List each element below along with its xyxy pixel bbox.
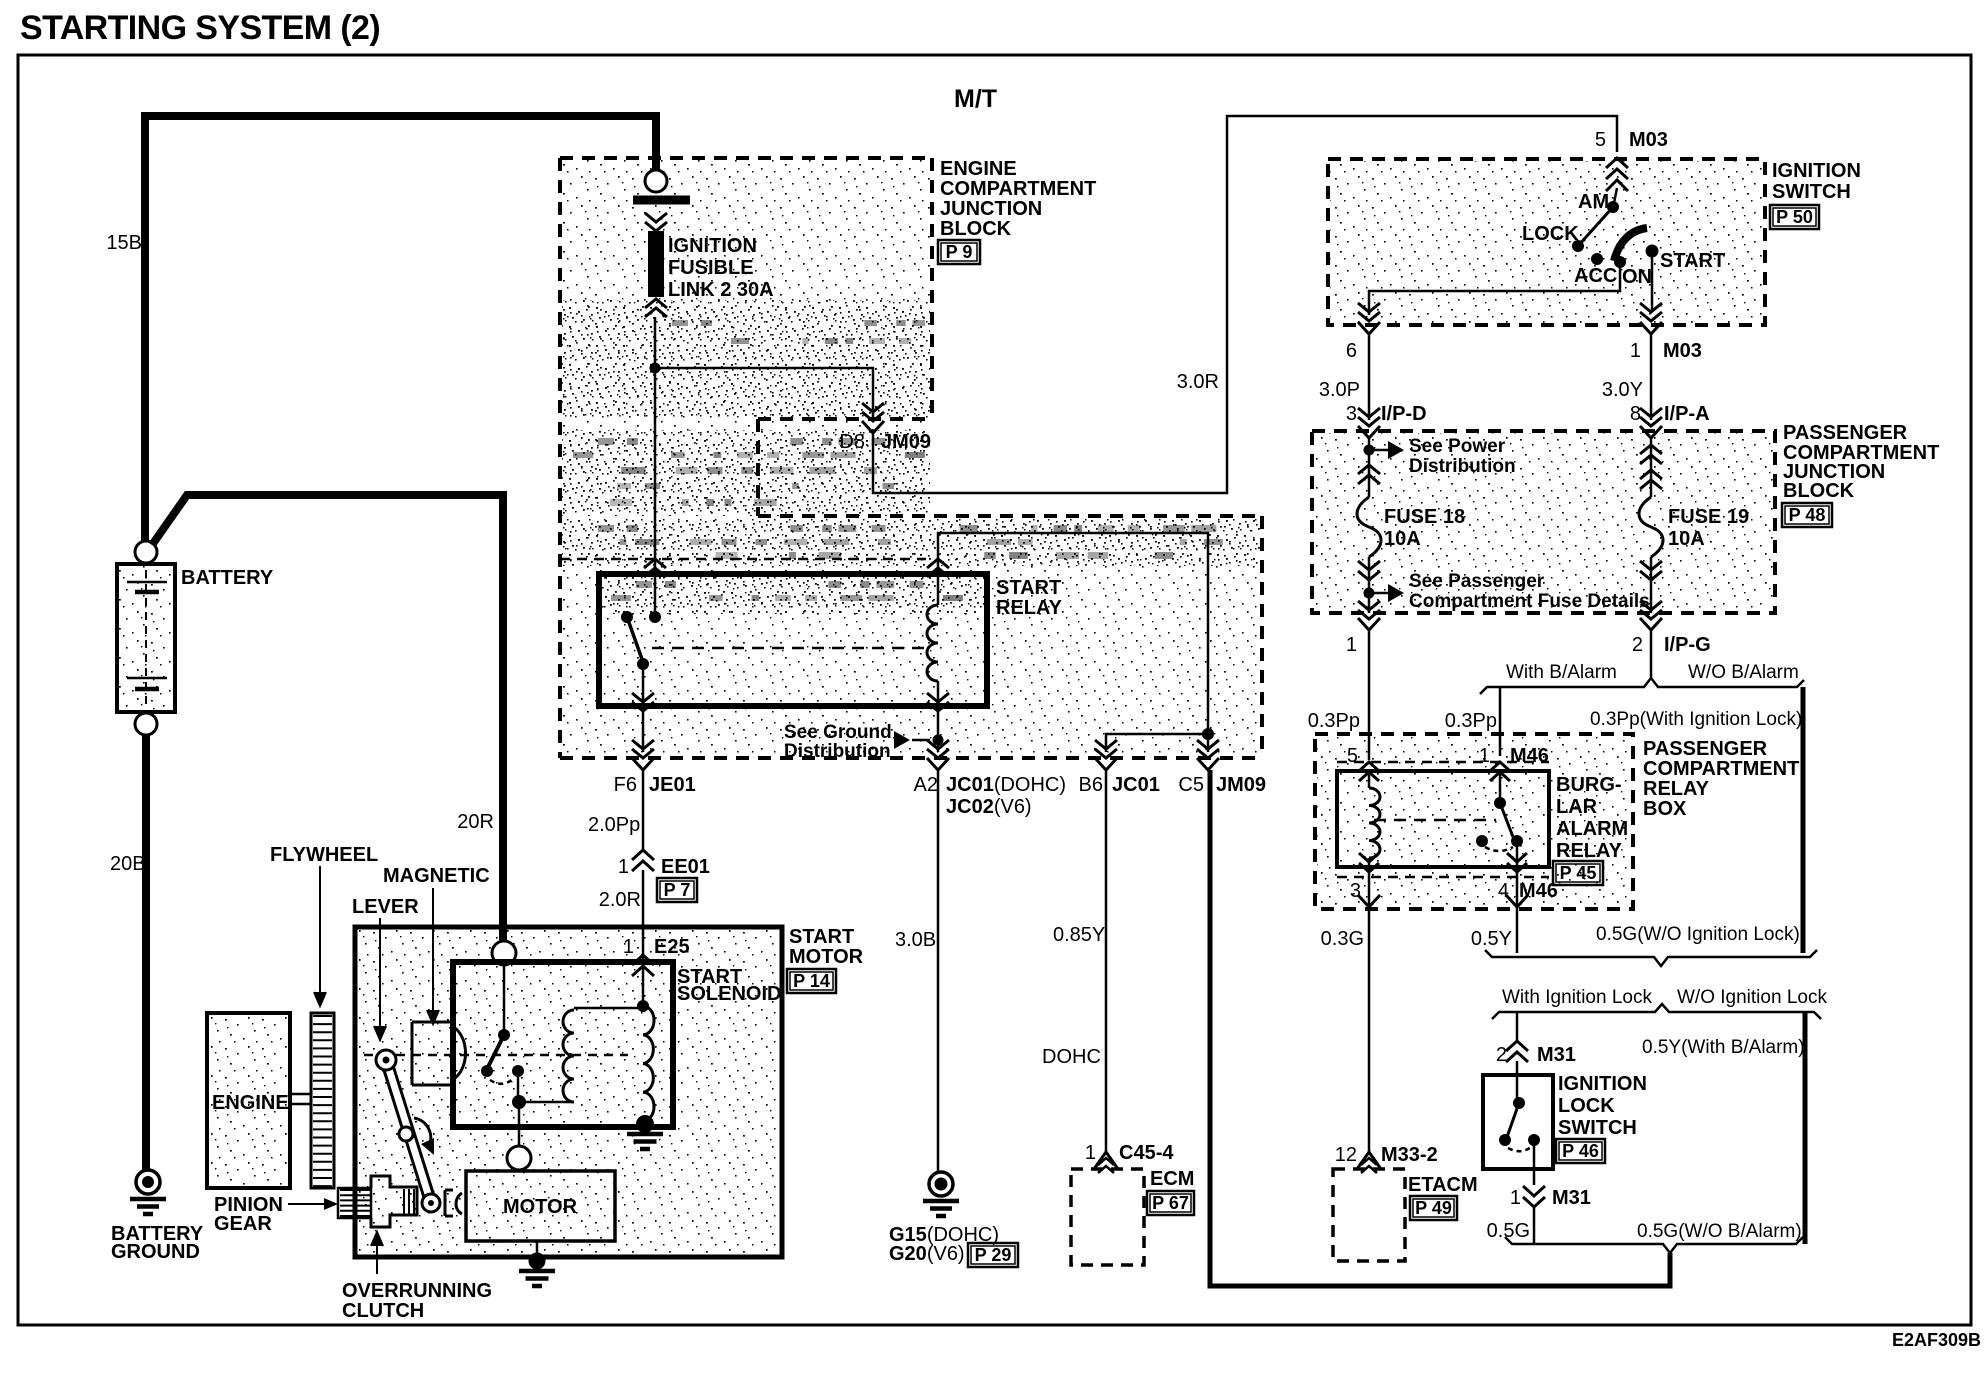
label G15(DOHC) G20(V6) <box>889 1224 999 1265</box>
connector 2 I/P-G <box>1640 601 1662 630</box>
wire fuse 19 to I/P-G <box>1650 557 1653 613</box>
connector arrows relay pins bottom <box>1359 853 1527 872</box>
connector pins 3 and 4 forks <box>1358 895 1528 907</box>
wire pin1 0.3Pp to relay box <box>1368 631 1371 760</box>
label 0.5Y (With B/Alarm) <box>1642 1037 1805 1058</box>
node power distribution tap <box>1364 445 1375 456</box>
label 0.85Y <box>1053 924 1105 946</box>
connector B6 JC01 <box>1095 740 1117 770</box>
svg-text:Compartment Fuse Details: Compartment Fuse Details <box>1409 591 1650 612</box>
label PASSENGER COMPARTMENT RELAY BOX <box>1643 738 1799 820</box>
svg-text:IGNITION: IGNITION <box>668 235 757 257</box>
svg-text:START: START <box>1660 250 1725 272</box>
burglar alarm relay inner dashed edges <box>1337 762 1549 877</box>
label 0.5G (W/O B/Alarm) <box>1637 1221 1802 1242</box>
fuse FUSE 19 10A <box>1639 497 1663 557</box>
wire ON contact to pin 6 <box>1369 262 1620 315</box>
wire 15B battery positive to fusible link <box>145 116 656 541</box>
label F6 JE01 <box>614 774 696 796</box>
svg-text:P 48: P 48 <box>1789 505 1826 525</box>
svg-text:Distribution: Distribution <box>1409 456 1516 477</box>
relay coil START RELAY <box>927 574 938 706</box>
label 4 M46 <box>1498 880 1558 902</box>
svg-text:2: 2 <box>1496 1044 1507 1066</box>
label LOCK <box>1522 223 1579 245</box>
label 0.5G (W/O Ignition Lock) <box>1596 924 1800 945</box>
label START SOLENOID <box>677 966 781 1005</box>
svg-text:LINK 2 30A: LINK 2 30A <box>668 279 774 301</box>
wire 2.0Pp JE01 to EE01 <box>642 770 645 850</box>
svg-text:IGNITION: IGNITION <box>1558 1073 1647 1095</box>
label MAGNETIC with arrow <box>383 865 490 1024</box>
svg-text:P 67: P 67 <box>1152 1193 1189 1213</box>
svg-text:ENGINE: ENGINE <box>940 158 1017 180</box>
svg-text:P 46: P 46 <box>1562 1141 1599 1161</box>
label W/O B/Alarm <box>1688 662 1799 683</box>
overrunning clutch <box>371 1176 417 1227</box>
flywheel gear rack <box>311 1013 334 1188</box>
svg-text:G20(V6): G20(V6) <box>889 1243 965 1265</box>
svg-text:RELAY: RELAY <box>996 597 1063 619</box>
battery BATTERY <box>117 564 175 712</box>
svg-text:5: 5 <box>1595 129 1606 151</box>
svg-text:1: 1 <box>1346 634 1357 656</box>
label ENGINE <box>212 1092 289 1114</box>
wire with ignition lock to M31 <box>1516 1012 1519 1041</box>
label PASSENGER COMPARTMENT JUNCTION BLOCK <box>1783 422 1939 502</box>
label 1 M46 <box>1479 745 1549 767</box>
svg-text:1: 1 <box>623 936 634 958</box>
label 0.3Pp (With Ignition Lock) <box>1590 709 1802 730</box>
switch IGNITION LOCK SWITCH box <box>1483 1075 1553 1169</box>
svg-text:PASSENGER: PASSENGER <box>1783 422 1908 444</box>
label With Ignition Lock <box>1502 987 1652 1008</box>
wire START contact to pin 1 <box>1651 251 1654 312</box>
label START RELAY <box>996 577 1063 619</box>
clutch fork bracket <box>445 1190 462 1216</box>
label B6 JC01 <box>1079 774 1160 796</box>
wire 3.0R JM09 to ignition switch <box>873 116 1617 493</box>
label 20B <box>110 853 146 875</box>
engine box ENGINE <box>207 1013 290 1188</box>
label 0.3G <box>1321 928 1364 950</box>
svg-text:20B: 20B <box>110 853 146 875</box>
svg-text:MAGNETIC: MAGNETIC <box>383 865 490 887</box>
svg-text:2: 2 <box>1632 634 1643 656</box>
ECM dashed box <box>1071 1169 1144 1265</box>
label OVERRUNNING CLUTCH with arrow <box>342 1232 492 1322</box>
page ref P 46 <box>1556 1139 1605 1163</box>
wire relay switch output to F6 <box>642 664 645 752</box>
page ref P 14 <box>787 969 836 993</box>
svg-text:W/O Ignition Lock: W/O Ignition Lock <box>1677 987 1827 1008</box>
svg-text:0.3Pp(With Ignition Lock): 0.3Pp(With Ignition Lock) <box>1590 709 1802 730</box>
svg-text:M31: M31 <box>1552 1187 1591 1209</box>
wire fuse 18 to pin 1 <box>1368 557 1371 613</box>
svg-text:M46: M46 <box>1510 745 1549 767</box>
svg-text:3.0B: 3.0B <box>895 929 936 951</box>
wire motor to ground <box>536 1241 539 1258</box>
connector 5 M03 <box>1606 158 1628 191</box>
svg-text:LEVER: LEVER <box>352 896 419 918</box>
connector pin 1 M03 <box>1640 303 1662 334</box>
label DOHC <box>1042 1046 1101 1068</box>
label 5 M03 <box>1595 129 1668 151</box>
node battery positive terminal <box>135 541 157 563</box>
svg-text:RELAY: RELAY <box>1556 840 1623 862</box>
svg-text:FUSE 19: FUSE 19 <box>1668 506 1749 528</box>
option bracket merge bottom <box>1505 1237 1803 1253</box>
wire 0.3Pp to relay pin 1 <box>1499 687 1502 756</box>
svg-text:IGNITION: IGNITION <box>1772 160 1861 182</box>
svg-text:See Power: See Power <box>1409 436 1506 457</box>
label See Passenger Compartment Fuse Details with arrow <box>1369 571 1650 612</box>
ground G15 G20 engine ground <box>923 1172 959 1216</box>
label 12 M33-2 <box>1335 1144 1438 1166</box>
svg-text:P 14: P 14 <box>793 971 830 991</box>
svg-text:0.5G(W/O B/Alarm): 0.5G(W/O B/Alarm) <box>1637 1221 1802 1242</box>
svg-text:20R: 20R <box>457 811 494 833</box>
label ECM <box>1150 1168 1194 1190</box>
burglar relay coil <box>1369 771 1380 871</box>
node 20R terminal post <box>492 941 516 965</box>
wire 3.0P pin6 to I/P-D <box>1368 335 1371 420</box>
svg-text:DOHC: DOHC <box>1042 1046 1101 1068</box>
wire 3.0Y M03 to I/P-A <box>1650 335 1653 420</box>
svg-text:FUSE 18: FUSE 18 <box>1384 506 1465 528</box>
page ref P 29 <box>968 1243 1018 1267</box>
solenoid hold-in coil <box>637 1000 654 1121</box>
connector arrows relay outputs <box>632 693 949 711</box>
label M/T <box>954 85 997 113</box>
svg-text:10A: 10A <box>1668 528 1705 550</box>
svg-text:ALARM: ALARM <box>1556 818 1628 840</box>
label ENGINE COMPARTMENT JUNCTION BLOCK <box>940 158 1096 240</box>
svg-text:COMPARTMENT: COMPARTMENT <box>1643 758 1799 780</box>
solenoid switch <box>481 965 524 1102</box>
svg-text:GROUND: GROUND <box>111 1241 200 1263</box>
svg-text:P 49: P 49 <box>1415 1198 1452 1218</box>
svg-text:4: 4 <box>1498 880 1509 902</box>
label W/O Ignition Lock <box>1677 987 1827 1008</box>
label FLYWHEEL with arrow <box>270 844 378 1006</box>
svg-text:JM09: JM09 <box>1216 774 1266 796</box>
svg-text:GEAR: GEAR <box>214 1213 272 1235</box>
svg-text:F6: F6 <box>614 774 637 796</box>
svg-text:1: 1 <box>1510 1187 1521 1209</box>
label ETACM <box>1408 1174 1478 1196</box>
connector E25 into solenoid <box>632 955 654 976</box>
label PINION GEAR with arrow <box>214 1194 338 1235</box>
label 0.3Pp mid <box>1445 710 1497 732</box>
lever arm <box>376 1050 440 1212</box>
wire switch to 1 M31 <box>1533 1140 1536 1185</box>
wire 0.3G relay pin 3 to ETACM <box>1368 871 1371 1152</box>
svg-text:3.0P: 3.0P <box>1319 379 1360 401</box>
wire 0.5G to merge bracket <box>1533 1206 1536 1244</box>
relay box passenger compartment dashed box <box>1315 734 1633 909</box>
svg-text:P 9: P 9 <box>946 242 973 262</box>
svg-text:C45-4: C45-4 <box>1119 1142 1174 1164</box>
connector 3 I/P-D <box>1358 408 1380 438</box>
svg-text:M03: M03 <box>1629 129 1668 151</box>
node junction fusible link / 3.0R branch <box>650 363 661 374</box>
svg-text:M33-2: M33-2 <box>1381 1144 1438 1166</box>
svg-text:3: 3 <box>1346 403 1357 425</box>
svg-text:JUNCTION: JUNCTION <box>940 198 1042 220</box>
label See Power Distribution with arrow <box>1369 436 1516 477</box>
label MOTOR <box>503 1196 578 1218</box>
label 3.0Y <box>1602 379 1643 401</box>
label 15B <box>106 232 142 254</box>
svg-text:COMPARTMENT: COMPARTMENT <box>940 178 1096 200</box>
option bracket ignition lock bottom <box>1492 1004 1821 1019</box>
label 3 I/P-D <box>1346 403 1427 425</box>
svg-text:M31: M31 <box>1537 1044 1576 1066</box>
connector 1 M31 <box>1523 1186 1545 1207</box>
svg-text:LAR: LAR <box>1556 796 1598 818</box>
svg-text:BLOCK: BLOCK <box>940 218 1012 240</box>
label 3 <box>1350 880 1361 902</box>
connector D8 JM09 <box>862 403 884 433</box>
svg-text:P 50: P 50 <box>1776 207 1813 227</box>
page ref P 45 <box>1553 861 1603 885</box>
label 8 I/P-A <box>1630 403 1710 425</box>
svg-text:W/O B/Alarm: W/O B/Alarm <box>1688 662 1799 683</box>
wire branch to B6 JC01 <box>1106 734 1208 752</box>
svg-text:BURG-: BURG- <box>1556 774 1622 796</box>
wire 0.3Pp with ignition lock branch <box>1801 687 1806 953</box>
svg-text:ACC: ACC <box>1574 265 1617 287</box>
connector 2 M31 <box>1506 1041 1528 1062</box>
relay mechanical link dashed burglar <box>1374 819 1496 822</box>
connector arrows above fuse 18 <box>1358 465 1380 484</box>
page ref P 7 <box>657 878 697 902</box>
svg-text:BOX: BOX <box>1643 798 1687 820</box>
wire I/P-D to fuse 18 <box>1368 438 1371 497</box>
svg-text:EE01: EE01 <box>661 856 710 878</box>
label 2 M31 <box>1496 1044 1576 1066</box>
label 2.0Pp <box>588 814 640 836</box>
label 2.0R <box>599 889 641 911</box>
svg-text:JC01: JC01 <box>1112 774 1160 796</box>
svg-text:LOCK: LOCK <box>1558 1095 1615 1117</box>
svg-text:M03: M03 <box>1663 340 1702 362</box>
page ref P 48 <box>1782 503 1832 527</box>
label IGNITION SWITCH <box>1772 160 1861 203</box>
wire 2.0R EE01 to E25 <box>642 870 645 1003</box>
svg-text:P 7: P 7 <box>664 880 691 900</box>
svg-text:0.5Y(With B/Alarm): 0.5Y(With B/Alarm) <box>1642 1037 1805 1058</box>
svg-text:E2AF309B: E2AF309B <box>1892 1330 1981 1350</box>
label FUSE 19 10A <box>1668 506 1749 550</box>
svg-text:0.5G(W/O Ignition Lock): 0.5G(W/O Ignition Lock) <box>1596 924 1800 945</box>
svg-text:BATTERY: BATTERY <box>181 567 274 589</box>
option bracket B/Alarm <box>1480 678 1804 694</box>
label 1 M31 <box>1510 1187 1591 1209</box>
wire fusible link to start relay <box>654 317 657 617</box>
connector arrows into relay from junction block <box>644 559 949 577</box>
svg-text:0.3G: 0.3G <box>1321 928 1364 950</box>
label ACC <box>1574 265 1617 287</box>
label BATTERY GROUND <box>111 1223 204 1263</box>
connector EE01 <box>632 850 654 871</box>
connector 12 M33-2 <box>1357 1152 1381 1173</box>
svg-text:C5: C5 <box>1178 774 1204 796</box>
wire solenoid to motor <box>518 1102 521 1146</box>
svg-text:2.0R: 2.0R <box>599 889 641 911</box>
svg-text:ENGINE: ENGINE <box>212 1092 289 1114</box>
connector arrows below fuse 18 <box>1358 561 1380 580</box>
label C5 JM09 <box>1178 774 1266 796</box>
svg-text:8: 8 <box>1630 403 1641 425</box>
svg-text:START: START <box>996 577 1061 599</box>
label 6 <box>1346 340 1357 362</box>
svg-text:3.0R: 3.0R <box>1177 371 1219 393</box>
svg-text:JM09: JM09 <box>881 431 931 453</box>
svg-text:FUSIBLE: FUSIBLE <box>668 257 754 279</box>
label A2 JC01(DOHC) JC02(V6) <box>914 774 1067 818</box>
label 1 <box>1346 634 1357 656</box>
rotation arrow <box>414 1118 434 1155</box>
solenoid pull-in coil <box>519 1008 643 1102</box>
svg-text:ETACM: ETACM <box>1408 1174 1478 1196</box>
svg-text:RELAY: RELAY <box>1643 778 1710 800</box>
svg-text:ON: ON <box>1622 266 1652 288</box>
label D8 JM09 <box>839 431 931 453</box>
svg-text:BLOCK: BLOCK <box>1783 480 1855 502</box>
wire I/P-A to fuse 19 <box>1650 438 1653 497</box>
svg-text:FLYWHEEL: FLYWHEEL <box>270 844 378 866</box>
label With B/Alarm <box>1506 662 1617 683</box>
ground motor ground <box>519 1253 555 1287</box>
label BATTERY <box>181 567 274 589</box>
wire 3.0B JC01 to ground <box>937 770 940 1172</box>
label LEVER with arrow <box>352 896 419 1040</box>
svg-text:0.5Y: 0.5Y <box>1471 928 1512 950</box>
ground solenoid coil ground <box>627 1115 663 1149</box>
svg-text:1: 1 <box>1630 340 1641 362</box>
label START <box>1660 250 1725 272</box>
node solenoid switch junction <box>512 1095 526 1109</box>
svg-text:3: 3 <box>1350 880 1361 902</box>
label 3.0R <box>1177 371 1219 393</box>
label 0.3Pp left <box>1308 710 1360 732</box>
connector arrows above fuse 19 <box>1640 445 1662 489</box>
svg-text:0.85Y: 0.85Y <box>1053 924 1105 946</box>
svg-text:6: 6 <box>1346 340 1357 362</box>
svg-text:P 45: P 45 <box>1560 863 1597 883</box>
fuse FUSE 18 10A <box>1357 497 1381 557</box>
wire relay coil top to C5 JM09 <box>938 533 1208 752</box>
svg-text:I/P-G: I/P-G <box>1664 634 1711 656</box>
connector pin 1 lower <box>1358 601 1380 630</box>
svg-text:AM: AM <box>1578 191 1609 213</box>
ignition switch dashed box <box>1328 159 1765 325</box>
connector arrows below fuse 19 <box>1640 561 1662 580</box>
option bracket ignition lock top <box>1485 950 1817 966</box>
label 20R <box>457 811 494 833</box>
node ground distribution tap <box>933 735 944 746</box>
label 1 C45-4 <box>1085 1142 1174 1164</box>
svg-text:MOTOR: MOTOR <box>789 946 864 968</box>
burglar relay switch <box>1476 771 1523 871</box>
svg-text:Distribution: Distribution <box>784 741 891 762</box>
svg-text:START: START <box>789 926 854 948</box>
label 1 M03 <box>1630 340 1702 362</box>
label IGNITION FUSIBLE LINK 2 30A <box>668 235 774 301</box>
svg-text:5: 5 <box>1347 745 1358 767</box>
junction block passenger compartment dashed box <box>1312 431 1775 613</box>
relay switch contacts <box>621 611 661 670</box>
svg-text:12: 12 <box>1335 1144 1357 1166</box>
fusible link IGNITION FUSIBLE LINK 2 30A <box>633 200 690 317</box>
label 1 EE01 <box>618 856 710 878</box>
connector arrows relay pins top <box>1359 762 1510 781</box>
svg-text:0.3Pp: 0.3Pp <box>1308 710 1360 732</box>
scan noise bands <box>573 320 1223 601</box>
svg-text:M46: M46 <box>1519 880 1558 902</box>
ground battery ground symbol <box>130 1170 166 1214</box>
svg-text:A2: A2 <box>914 774 938 796</box>
label 2 I/P-G <box>1632 634 1711 656</box>
label IGNITION LOCK SWITCH <box>1558 1073 1647 1139</box>
pinion gear <box>338 1188 371 1218</box>
svg-text:M/T: M/T <box>954 85 997 113</box>
page ref P 50 <box>1770 205 1819 229</box>
svg-text:JC02(V6): JC02(V6) <box>946 796 1032 818</box>
svg-text:CLUTCH: CLUTCH <box>342 1300 424 1322</box>
svg-text:MOTOR: MOTOR <box>503 1196 578 1218</box>
label 3.0P <box>1319 379 1360 401</box>
label 1 E25 <box>623 936 690 958</box>
wire 0.5Y relay pin 4 to bracket <box>1516 871 1519 953</box>
relay mechanical link dashed <box>652 647 930 650</box>
connector pin 6 <box>1358 303 1380 334</box>
label 5 pin <box>1347 745 1358 767</box>
wire 20B battery negative to ground <box>142 735 150 1171</box>
svg-text:1: 1 <box>618 856 629 878</box>
wire M03 to AM contact <box>1614 188 1617 203</box>
code E2AF309B <box>1892 1330 1981 1350</box>
wire merged return to JM09 <box>1210 770 1670 1286</box>
svg-text:SOLENOID: SOLENOID <box>677 983 781 1005</box>
svg-text:I/P-D: I/P-D <box>1381 403 1427 425</box>
junction block engine compartment dashed box <box>560 158 1262 758</box>
svg-text:SWITCH: SWITCH <box>1772 181 1851 203</box>
svg-text:E25: E25 <box>654 936 690 958</box>
relay START RELAY box <box>599 574 987 706</box>
ignition switch contacts <box>1572 201 1659 268</box>
wire I/P-G to option split <box>1650 631 1653 678</box>
svg-text:10A: 10A <box>1384 528 1421 550</box>
label See Ground Distribution with arrow <box>784 722 930 762</box>
connector 8 I/P-A <box>1640 408 1662 438</box>
svg-text:15B: 15B <box>106 232 142 254</box>
svg-text:With B/Alarm: With B/Alarm <box>1506 662 1617 683</box>
node passenger fuse details tap <box>1364 588 1375 599</box>
svg-text:1: 1 <box>1085 1142 1096 1164</box>
solenoid plunger dashed axis <box>364 1054 628 1057</box>
svg-text:ECM: ECM <box>1150 1168 1194 1190</box>
page ref P 49 <box>1410 1196 1457 1220</box>
svg-text:3.0Y: 3.0Y <box>1602 379 1643 401</box>
node fusible link terminal <box>645 170 667 192</box>
svg-text:LOCK: LOCK <box>1522 223 1579 245</box>
wire branch to D8 JM09 <box>655 368 873 421</box>
ETACM dashed box <box>1333 1169 1405 1261</box>
svg-text:STARTING SYSTEM (2): STARTING SYSTEM (2) <box>20 9 380 47</box>
